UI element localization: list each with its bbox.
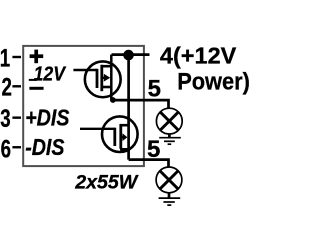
12V label <box>34 63 67 86</box>
Q2 gate bar <box>113 128 116 146</box>
transistor Q1 (MOSFET, upper) <box>73 55 120 101</box>
Q1 gate bar <box>96 69 99 88</box>
svg-text:5: 5 <box>147 136 160 163</box>
svg-text:+DIS: +DIS <box>25 105 70 131</box>
Q1 body arrow <box>102 77 105 79</box>
pin 3 tick <box>12 116 21 118</box>
svg-text:4(+12V: 4(+12V <box>160 42 237 68</box>
wire: vertical +12V rail down through Q2 <box>127 55 130 160</box>
svg-text:3: 3 <box>0 104 10 132</box>
Q2 channel bar <box>119 124 122 149</box>
pin 2 tick <box>12 85 21 87</box>
transistor Q2 (MOSFET, lower) <box>80 116 138 152</box>
svg-text:2: 2 <box>2 73 12 101</box>
pin 1 tick <box>12 56 21 58</box>
wire: +12V rail from Q1 drain to pin 4 stub <box>112 53 150 56</box>
Q1 drain/source spine <box>110 55 113 101</box>
Q2 source stub <box>120 148 129 151</box>
ground (lamp E2) <box>159 198 181 205</box>
Q2 body arrow <box>121 136 124 138</box>
svg-text:1: 1 <box>0 44 10 72</box>
wire: Q1 source to lamp E1 <box>112 100 168 108</box>
wire: lamp E2 to ground <box>168 193 171 198</box>
Q1 body circle <box>85 61 121 97</box>
+DIS label (pin 3) <box>25 105 70 131</box>
Q1 channel bar <box>100 65 103 91</box>
plus symbol (pin 1 polarity) <box>30 50 44 64</box>
-DIS label (pin 6) <box>25 135 65 161</box>
lamp E2 (lower bulb) <box>156 167 182 193</box>
ground (lamp E1) <box>159 138 181 145</box>
IC box U1 <box>23 46 144 166</box>
pin 2 label <box>2 73 12 101</box>
pin 6 label <box>1 135 11 163</box>
node: +12V junction dot <box>123 50 134 61</box>
svg-text:5: 5 <box>148 75 161 102</box>
svg-text:12V: 12V <box>34 63 67 86</box>
wire: Q2 source to lamp E2 <box>129 160 169 167</box>
svg-text:2x55W: 2x55W <box>74 171 139 193</box>
Q1 gate lead <box>73 69 97 71</box>
node: Q1 source junction dot <box>110 97 116 103</box>
svg-text:Power): Power) <box>177 67 250 94</box>
pin 4 label line 2 <box>177 67 250 94</box>
pin 6 tick <box>12 146 21 148</box>
Q1 drain stub <box>101 65 111 68</box>
Q1 source stub <box>101 86 111 89</box>
pin 1 label <box>0 44 10 72</box>
svg-text:-DIS: -DIS <box>25 135 65 161</box>
Q2 body circle <box>102 116 138 152</box>
minus symbol (pin 2 polarity) <box>29 87 43 90</box>
12V underline dash <box>29 79 37 81</box>
pin 3 label <box>0 104 10 132</box>
svg-text:6: 6 <box>1 135 11 163</box>
Q2 gate lead <box>80 128 115 130</box>
lamp E1 (upper bulb) <box>156 108 182 134</box>
wire: lamp E1 to ground <box>168 135 171 138</box>
Q2 drain stub <box>120 124 129 127</box>
